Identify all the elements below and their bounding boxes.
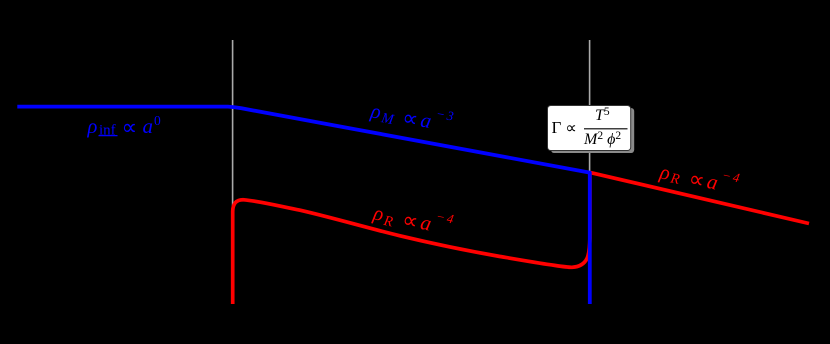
svg-text:ρ: ρ (87, 116, 98, 138)
svg-text:0: 0 (154, 113, 161, 128)
formula box (548, 106, 631, 151)
vertical guide line 2 (end of reheating) (589, 40, 591, 302)
blue curve: inflaton / matter energy density (17, 107, 590, 304)
formula box shadow (551, 108, 634, 153)
svg-text:Γ ∝: Γ ∝ (552, 118, 577, 137)
vertical guide line 1 (end of inflation) (232, 40, 234, 302)
label rho_inf ∝ a^0 (blue) (87, 113, 162, 140)
red line right segment rho_R after reheating (590, 172, 809, 223)
label rho_M ∝ a^-3 (blue, rotated) (368, 94, 457, 140)
svg-text:a: a (143, 114, 154, 138)
label rho_R ∝ a^-4 (red, right, rotated) (657, 155, 743, 201)
label rho_R ∝ a^-4 (red, middle, rotated) (370, 196, 457, 243)
red curve: radiation energy density rho_R (233, 173, 590, 304)
svg-text:∝: ∝ (122, 114, 138, 139)
